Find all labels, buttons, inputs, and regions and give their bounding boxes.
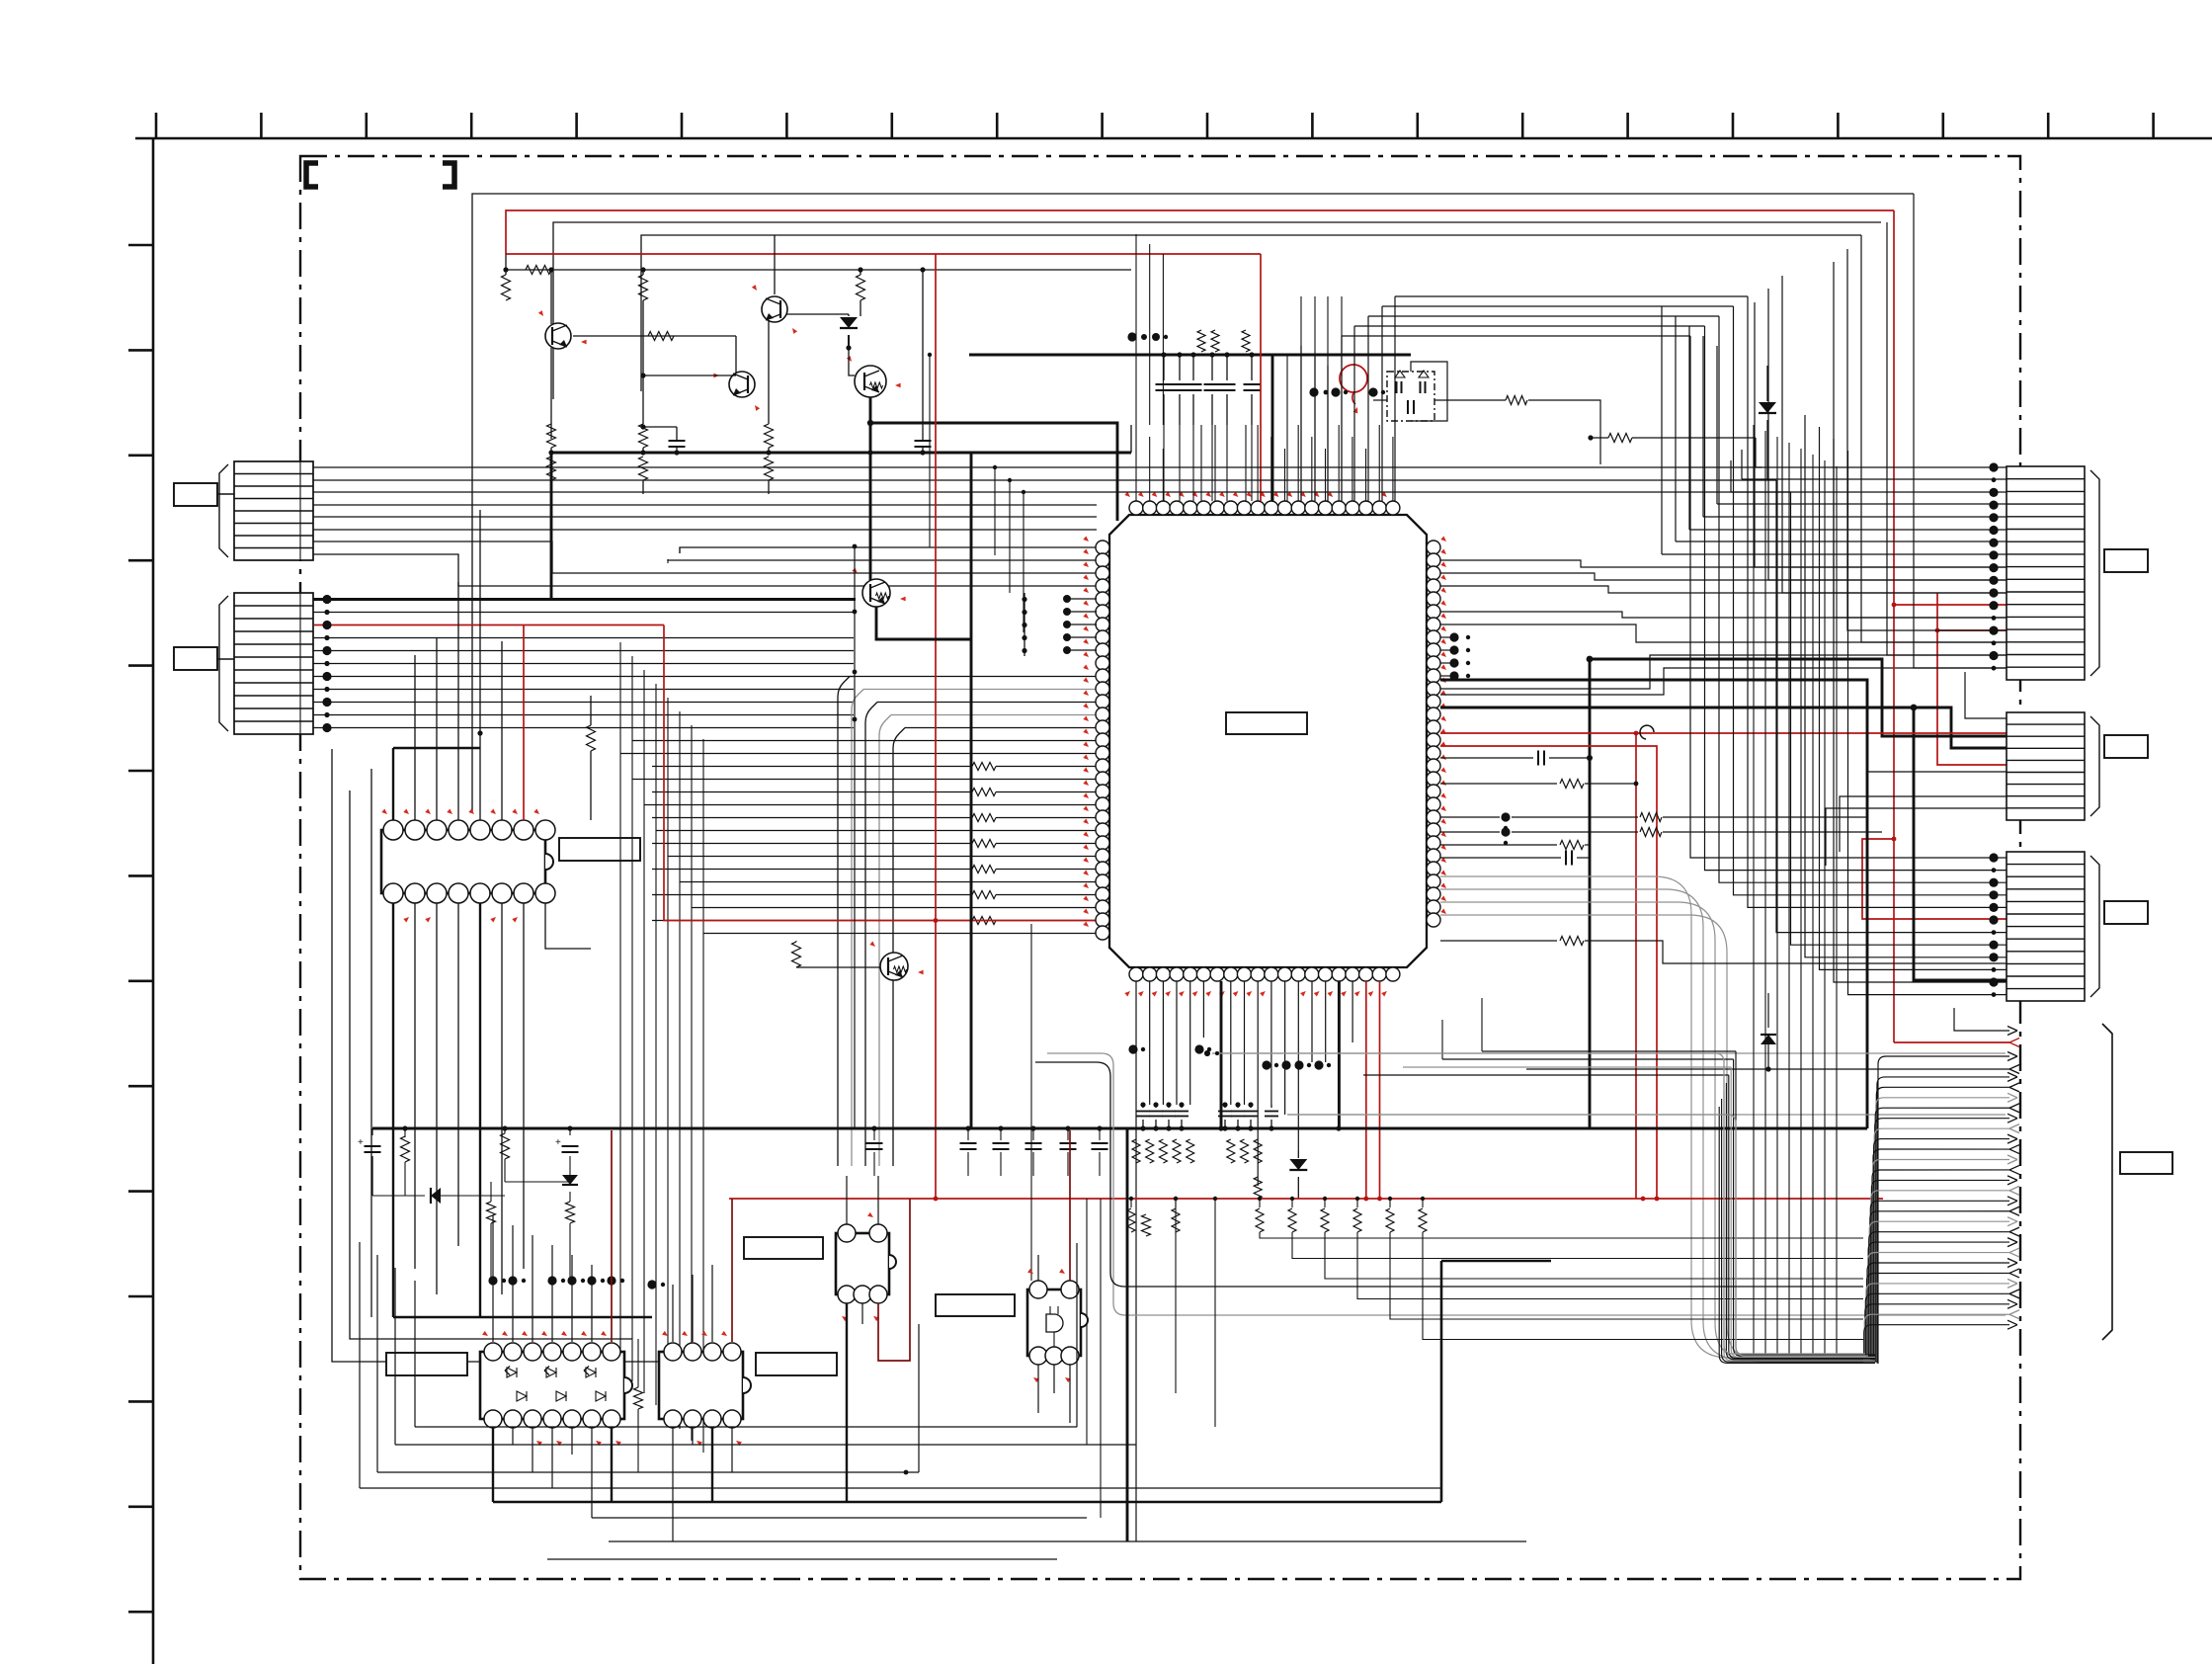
- band left exits: [1482, 1050, 1736, 1052]
- thick vertical x1609 to bus: [1589, 659, 1592, 1128]
- thick ground bus y458: [551, 452, 1131, 455]
- bus left end cap: [371, 1128, 373, 1135]
- connector CN2 label box: [174, 647, 217, 670]
- right rows into CN3 jogged: [1440, 560, 2007, 567]
- transistor Q3: [762, 296, 787, 322]
- IC2 top feed wires: [392, 748, 394, 820]
- resistor near IC6: [1142, 1214, 1151, 1236]
- IC4 pins: [664, 1343, 682, 1361]
- resistor row below bus group2: [1227, 1139, 1235, 1163]
- gray long wire 1: [1212, 1052, 2006, 1054]
- red bottom pin verticals: [1365, 981, 1367, 1199]
- gray rounded path left: [1047, 1053, 2006, 1315]
- diode D5 above arrow row: [1767, 993, 1769, 1028]
- crystal internals: [1396, 381, 1398, 393]
- thick bus y359: [969, 354, 1411, 357]
- vertical x941 bus to pin row: [929, 355, 931, 547]
- transistor Q4: [855, 366, 886, 397]
- connector CN3 body: [2007, 466, 2085, 680]
- thick right vertical: [1440, 1261, 1443, 1502]
- thick wire y667 to CN4: [1590, 659, 2007, 736]
- IC4 red feed: [731, 1199, 733, 1342]
- staircase from red bus resistors to spine: [1260, 1232, 1863, 1238]
- resistor R7: [639, 424, 648, 448]
- red wire vertical x1961: [1937, 593, 2007, 765]
- IC5 maroon wire: [878, 1199, 910, 1361]
- resistor R1: [526, 266, 551, 275]
- thick wire Q4 to QFP corner: [870, 423, 1117, 521]
- resistor R4: [857, 275, 865, 300]
- black dots row near crystal: [1309, 387, 1318, 396]
- resistor wire y443: [1588, 435, 1593, 440]
- connector CN4 label box: [2104, 735, 2148, 758]
- red wire CN2row3 to IC1 pin: [664, 625, 1097, 921]
- short corners into CN3 upper rows: [1756, 466, 2007, 468]
- right side bottom verticals: [918, 1324, 920, 1472]
- wire D1 to bus3: [849, 347, 873, 349]
- vertical x1044 lower: [1030, 924, 1032, 1290]
- right rows dots column x1524: [1501, 812, 1510, 821]
- right row 855 res: [1440, 844, 1557, 846]
- IC3 bottom wires: [492, 1428, 494, 1502]
- stub verticals to band exits: [1481, 998, 1483, 1051]
- bottom loop horizontals: [415, 1426, 1077, 1428]
- left rows group A: [632, 740, 1097, 742]
- wire top bus 3: [641, 235, 1861, 391]
- long horizontals lower mid: [609, 1540, 1526, 1542]
- connector CN4 body: [2007, 712, 2085, 820]
- thick bus y1142: [372, 1127, 1867, 1130]
- capacitor C1: [669, 440, 686, 442]
- IC1 right pins: [1427, 541, 1440, 554]
- IC3 top feed dots: [488, 1276, 497, 1285]
- wire hop curl: [1640, 725, 1654, 739]
- right pin stub dots: [1449, 632, 1458, 641]
- thick wire to CN5 row992: [1914, 707, 2007, 980]
- IC5 wires: [846, 1176, 848, 1224]
- thick vertical x983: [970, 453, 973, 1128]
- connector CN1 body: [234, 461, 313, 560]
- arrow row 1: [1954, 1008, 2009, 1031]
- cap on right row 767: [1440, 757, 1533, 759]
- dots row below IC1: [1128, 1044, 1137, 1053]
- diode below bus: [1297, 1151, 1299, 1158]
- IC2 pins top: [383, 820, 403, 840]
- CN2 pin dots: [322, 595, 331, 604]
- connect left bundle to bottom loops: [619, 1364, 621, 1428]
- verticals below red bus long: [1175, 1199, 1177, 1393]
- svg-text:+: +: [358, 1137, 364, 1148]
- gray long wire 2: [1287, 1114, 2006, 1116]
- IC2 bottom wires: [392, 903, 394, 1317]
- resistor x1273 lower: [1254, 1177, 1262, 1199]
- CN2 exit wires: [313, 612, 854, 614]
- IC3 body: [480, 1352, 624, 1419]
- bottom loop verticals: [359, 1242, 361, 1488]
- junctions on rail: [503, 267, 508, 272]
- thick bottom pin vertical 2: [1338, 981, 1341, 1128]
- thick riser to IC1 top pin: [1271, 355, 1274, 501]
- red riser to top pin: [1260, 254, 1262, 501]
- red vertical x1910 long: [1893, 210, 1895, 1042]
- diode D3: [431, 1188, 441, 1204]
- CN5 pin dots: [1989, 853, 1998, 862]
- red wire IC6 area: [1470, 1199, 1472, 1276]
- long rows above QFP to CN5 verticals: [1097, 466, 1762, 468]
- wire top bus 2: [553, 222, 1881, 399]
- IC2 bottom loop wires: [393, 1316, 652, 1318]
- CN3 feed verticals upper: [1741, 450, 1743, 479]
- connector CN3 label box: [2104, 549, 2148, 572]
- bottom-left vertical bundle continuation: [619, 1363, 621, 1365]
- red vertical x947: [935, 254, 937, 1199]
- base wire Q1-Q2 with resistor R5: [573, 335, 736, 337]
- wire y1196: [505, 1181, 570, 1183]
- IC5 label box: [744, 1237, 823, 1259]
- right row 868 cap: [1440, 857, 1561, 859]
- gray-black riser bundle into pins: [838, 677, 850, 1167]
- connector CN4 brace: [2090, 716, 2099, 816]
- CN4 feed wires: [1965, 672, 2007, 718]
- IC1 right small dots extra: [1466, 635, 1470, 639]
- resistors below ground bus: [547, 457, 556, 480]
- gray rows from right pins arcs down to bundle: [1440, 876, 1863, 1358]
- ground bus risers: [1130, 425, 1132, 453]
- resistor R21: [501, 1133, 510, 1159]
- IC5 body 5pin: [836, 1233, 889, 1294]
- gray long wire 2 to bundle: [1287, 1115, 1868, 1356]
- connector CN5 body: [2007, 852, 2085, 1001]
- connector CN5 label box: [2104, 901, 2148, 924]
- left vertical bundle: [619, 642, 621, 1370]
- wire Q2 base drop: [735, 336, 737, 374]
- red feed to IC3: [611, 1130, 613, 1342]
- wire from crystal right: [1528, 400, 1600, 464]
- bottom centre verticals: [1030, 924, 1032, 1281]
- connector CN1 brace: [219, 464, 228, 557]
- arrow row 2 red: [1894, 1041, 2009, 1043]
- capacitor C2: [915, 440, 932, 442]
- IC1 bottom pins: [1129, 967, 1143, 981]
- wire x598 long vertical: [590, 949, 592, 1294]
- right row 793 res: [1440, 783, 1557, 785]
- connector CN2 body: [234, 593, 313, 734]
- transistor Q1: [550, 270, 552, 324]
- IC4 bottom wires: [672, 1428, 674, 1541]
- dots lower: [1126, 1540, 1128, 1542]
- transistor Q5: [862, 579, 890, 607]
- resistor row below red bus: [1130, 1199, 1132, 1207]
- dots under IC4: [647, 1280, 656, 1289]
- right row 952 res to CN5: [1440, 940, 1557, 942]
- diode D4 resistor column: [562, 1175, 578, 1185]
- IC3 pins: [484, 1343, 502, 1361]
- caps cluster below IC1 group2: [1222, 1102, 1227, 1107]
- thick bottom pin vertical: [1220, 981, 1223, 1128]
- Q4 base wire: [849, 347, 856, 349]
- loop left risers: [360, 1241, 692, 1243]
- row drops x1007-1036: [994, 467, 996, 555]
- resistor R3: [639, 275, 648, 300]
- thick bottom bus y1520: [493, 1501, 1441, 1504]
- dash-dot board outline: [300, 156, 2020, 1579]
- thick wire QFP right row688 to bus: [1440, 680, 1867, 1128]
- page frame ruler left: [152, 138, 155, 1664]
- IC3 label box: [386, 1353, 467, 1375]
- page frame ruler top: [135, 137, 2212, 140]
- diode D2 right: [1766, 366, 1768, 401]
- IC6 body AND gate: [1027, 1290, 1081, 1356]
- IC6 wires: [1037, 1255, 1039, 1281]
- gray long wire 1 to bundle: [1212, 1053, 1865, 1354]
- resistor row below bus group1: [1132, 1139, 1140, 1163]
- staircase corners into CN3: [1914, 194, 2007, 668]
- top pin long risers: [1135, 234, 1137, 425]
- IC6 red feed: [1069, 1130, 1071, 1281]
- left bundle lower connections: [619, 1426, 621, 1428]
- wire y1578: [547, 1558, 1057, 1560]
- ecap C10: [562, 1145, 579, 1147]
- thick feed bus above IC2: [393, 747, 480, 749]
- IC2 body: [381, 830, 545, 893]
- IC1 QFP body: [1109, 515, 1427, 967]
- resistor R20: [401, 1136, 410, 1162]
- CN2 red wire row3: [314, 624, 664, 626]
- resistor R8: [765, 424, 774, 448]
- title bracket close: [443, 163, 454, 187]
- verticals from above joining spine band: [1753, 425, 1755, 1356]
- resistor R22 column: [487, 1202, 496, 1223]
- connector CN5 brace: [2090, 856, 2099, 997]
- red junction and drop x1656: [1634, 731, 1639, 736]
- resistor R10: [792, 942, 801, 967]
- thick vertical x1141 lower: [1126, 1128, 1129, 1541]
- red bus junction dots: [1363, 1197, 1368, 1202]
- Q3 collector wire: [782, 315, 849, 317]
- IC4 label box: [756, 1353, 837, 1375]
- top riser links short: [1300, 346, 1302, 501]
- IC1 top pins: [1129, 501, 1143, 515]
- IC1 label box: [1226, 712, 1307, 734]
- IC4 feed verticals: [672, 1285, 674, 1342]
- CN5 feed verticals bundle: [1690, 336, 2007, 858]
- diode D1: [848, 314, 850, 316]
- Q5 thick emitter: [876, 607, 971, 639]
- ruler ticks left: [128, 244, 153, 247]
- connector CN3 brace: [2090, 470, 2099, 676]
- resistor R9 above IC2: [587, 725, 596, 751]
- spine bundle wires: [1878, 1056, 2009, 1364]
- thick riser to ground bus: [550, 453, 553, 600]
- IC6 label box: [936, 1294, 1015, 1316]
- connector CN2 brace: [219, 596, 228, 731]
- wire from pin16 down: [1352, 981, 1353, 1042]
- IC2 label box: [559, 838, 640, 861]
- arrow field brace: [2102, 1024, 2112, 1340]
- caps cluster above IC1: [1163, 355, 1165, 380]
- bus risers bottom-left: [371, 1127, 373, 1129]
- bias rail red y257: [506, 253, 1261, 255]
- bias rail y273: [506, 269, 1131, 271]
- svg-text:+: +: [555, 1137, 561, 1148]
- IC3 feed verticals: [492, 1215, 494, 1342]
- red bus y1213: [729, 1198, 1883, 1200]
- wire top bus 1: [472, 194, 1914, 813]
- dots pair above IC1: [1127, 332, 1136, 341]
- resistor cluster above IC1: [1197, 330, 1205, 352]
- wire red top bus: [506, 210, 1894, 254]
- caps row on bus right part: [866, 1142, 883, 1144]
- transistor Q6: [880, 953, 908, 980]
- IC1 left pins: [1096, 541, 1109, 554]
- vertical long x865: [854, 546, 856, 1128]
- red row 755 drop x1677: [1440, 746, 1657, 1199]
- CN1 exit wires: [313, 466, 1097, 468]
- transistor Q2: [729, 372, 755, 397]
- QFP top riser links to CN5 verticals: [1341, 336, 1343, 501]
- caps cluster below IC1 group1: [1140, 1102, 1145, 1107]
- red circle mic symbol: [1340, 365, 1367, 392]
- Q4 emitter thick wire: [869, 397, 872, 453]
- CN2 thick wire row1: [313, 598, 856, 601]
- verticals pins to cluster: [1163, 425, 1165, 501]
- left rows into QFP pins upper: [680, 547, 1097, 553]
- thick riser x1303: [1286, 355, 1288, 501]
- bottom pin verticals group1: [1135, 981, 1137, 1541]
- resistor R23: [634, 1387, 643, 1409]
- thick wire y716 to CN4: [1440, 707, 2007, 748]
- IC1 left small dots column: [1063, 595, 1071, 603]
- resistor R6: [547, 424, 556, 448]
- CN3 pin dots: [1989, 462, 1998, 471]
- black rounded path left down right: [1035, 1062, 1863, 1287]
- title bracket open: [306, 163, 318, 187]
- left rows resistors: [652, 766, 972, 768]
- band return wires: [1736, 1051, 1875, 1355]
- crystal outer wires: [1411, 362, 1447, 421]
- connector CN1 label box: [174, 483, 217, 506]
- horizontal link y1020: [1136, 1007, 1431, 1009]
- IC6 gate symbol: [1046, 1314, 1063, 1332]
- vertical stubs from top pins: [1135, 425, 1137, 501]
- thick wire Q4 to Q5: [869, 453, 872, 580]
- right row to CN3 row663: [1440, 655, 2007, 689]
- risers right of red: [1300, 296, 1302, 501]
- red wire CN2 to IC2 pin8: [523, 625, 525, 821]
- resistor R2: [502, 275, 511, 300]
- IC4 body: [659, 1352, 743, 1419]
- wire stub dots x1037: [1022, 597, 1026, 602]
- ruler ticks top: [155, 113, 158, 138]
- IC2 loop wires outer: [332, 749, 692, 1362]
- arrow row 1082 long: [1526, 1068, 2009, 1070]
- arrow field label box: [2120, 1152, 2172, 1174]
- red wire CN3 row612 to CN5: [1894, 604, 2007, 606]
- crystal oscillator block: [1387, 372, 1434, 421]
- IC2 pins bottom: [383, 883, 403, 903]
- IC3 internal opto diodes: [507, 1368, 517, 1377]
- bus junction dots: [1140, 1125, 1145, 1130]
- red main row y742: [1440, 732, 2007, 734]
